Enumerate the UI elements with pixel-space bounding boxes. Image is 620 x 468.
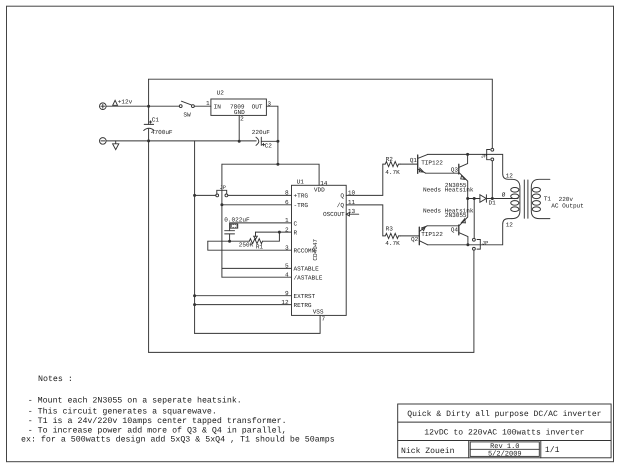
wire node line to R1 [208,240,250,242]
svg-text:4.7K: 4.7K [385,240,400,247]
ground flag [113,141,119,150]
svg-text:7: 7 [322,316,326,323]
jumper JP top right [487,148,494,161]
svg-text:+12v: +12v [118,99,133,106]
jumper JP left [216,190,228,197]
svg-text:Nick Zouein: Nick Zouein [401,447,455,456]
wire R2 to Q1 base [401,163,418,165]
switch SW [179,101,194,107]
svg-text:- T1 is a 24v/220v 10amps cent: - T1 is a 24v/220v 10amps center tapped … [28,416,287,426]
svg-text:RETRG: RETRG [294,302,312,309]
svg-text:Needs Heatsink: Needs Heatsink [423,187,474,194]
svg-text:Q4: Q4 [451,227,459,234]
wire top rail to right jumper [149,79,493,148]
svg-text:1/1: 1/1 [545,446,560,455]
transistor Q2 TIP122 [419,226,427,245]
svg-text:/ASTABLE: /ASTABLE [294,275,323,282]
wire Q pin10 to R2 [346,164,383,195]
svg-text:12: 12 [281,299,289,306]
svg-text:Q2: Q2 [411,236,419,243]
svg-text:220uF: 220uF [252,129,270,136]
svg-text:3: 3 [285,244,289,251]
svg-text:OUT: OUT [252,104,263,111]
svg-text:TIP122: TIP122 [421,231,443,238]
svg-text:2: 2 [285,226,289,233]
svg-text:5: 5 [285,263,289,270]
wire EXTRST pin 9 [195,295,292,297]
wire VDD branch horizontal [222,164,319,185]
svg-text:Quick & Dirty all purpose DC/A: Quick & Dirty all purpose DC/AC inverter [407,410,601,419]
+12v flag [113,100,118,105]
diode D1 [480,195,487,203]
svg-text:SW: SW [183,112,191,119]
wire pin3 RCCOMN [208,241,292,250]
svg-text:CD4047: CD4047 [312,239,319,261]
svg-text:JP: JP [482,241,488,247]
wire +12v from terminal to switch [106,105,179,107]
svg-text:JP: JP [220,185,226,191]
potentiometer R1 250K [249,232,262,244]
resistor R2 4.7K [383,162,401,167]
wire 0V to jumper pin [195,194,216,196]
svg-text:C2: C2 [265,142,273,149]
svg-text:6: 6 [285,199,289,206]
svg-text:JP: JP [481,153,487,159]
wire Q1 emitter to Q3 base [426,172,459,174]
wire emitter node row [468,198,480,200]
battery negative terminal [100,138,107,145]
svg-text:U2: U2 [217,90,225,97]
svg-text:C: C [294,220,298,227]
wire 0V drop to logic loop [194,141,196,334]
svg-text:+TRG: +TRG [294,193,309,200]
capacitor C3 [225,231,235,234]
svg-text:IN: IN [214,104,222,111]
wire bottom outer rail [149,250,474,352]
wire /Q pin11 to R3 [346,205,383,236]
svg-text:13: 13 [348,208,356,215]
wire logic bottom rail to VSS [195,315,321,333]
svg-text:2N3055: 2N3055 [445,212,467,219]
svg-text:12: 12 [506,172,514,179]
svg-text:Ø: Ø [502,192,506,199]
svg-text:Q3: Q3 [451,166,459,173]
wire R1 right to pin2 [263,232,280,241]
svg-text:12vDC to 220vAC 100watts inver: 12vDC to 220vAC 100watts inverter [424,428,584,437]
svg-text:2: 2 [240,115,244,122]
resistor R3 4.7K [383,233,401,238]
wire 0V rail from terminal to C2 [106,140,256,142]
svg-text:1: 1 [285,217,289,224]
notes block [21,375,335,444]
OSCOUT pin13 stub with marker [346,213,358,216]
svg-text:4: 4 [285,271,289,278]
wire ASTABLE pin 5 [222,267,292,269]
svg-text:AC Output: AC Output [551,203,584,210]
transformer T1 secondary outline [531,179,550,218]
svg-text:Q1: Q1 [410,157,418,164]
wire VSS pin7 stub part of loop above [0,0,1,1]
wire C3 bottom to node [229,234,231,241]
wire jumper to center tap node [491,161,493,199]
C3 label box [230,224,238,228]
svg-text:Notes :: Notes : [38,375,73,384]
svg-text:EXTRST: EXTRST [294,293,316,300]
wire U2 OUT to 9V node [266,106,278,164]
svg-text:R1: R1 [256,244,264,251]
svg-text:C1: C1 [152,116,160,123]
regulator U2 7809 body [211,99,267,115]
wire D1 cathode to center tap [486,198,518,200]
wire /ASTABLE pin 4 [222,276,292,278]
wire C2 to 9V node [261,140,278,142]
wire -TRG pin 6 [222,204,292,206]
wire collector bus bottom [428,219,512,245]
svg-text:- This circuit generates a squ: - This circuit generates a squarewave. [28,407,217,417]
wire emitter node down to jumper [473,199,475,239]
svg-text:VSS: VSS [313,308,324,315]
transformer core [524,180,528,218]
svg-text:4700uF: 4700uF [151,129,173,136]
svg-text:VDD: VDD [314,187,325,194]
transformer T1 primary outline [512,179,520,218]
wire collector bus top [428,154,512,179]
svg-text:- To increase power add more o: - To increase power add more of Q3 & Q4 … [28,425,287,435]
jumper JP bottom right [473,238,481,250]
svg-text:8: 8 [285,190,289,197]
svg-text:3: 3 [267,100,271,107]
title block [398,404,611,458]
wire pin2 R [256,231,292,233]
wire U2 GND pin 2 stub [238,115,240,141]
wire Q2 emitter to Q4 base [427,225,459,227]
wire pin1 C to C3 [230,223,292,231]
wire C1 bottom down left outer rail [148,129,150,352]
transformer T1 secondary loops [532,188,540,212]
IC U1 CD4047 body [292,185,347,315]
svg-text:250K: 250K [239,242,254,249]
svg-text:ex: for a 500watts design add: ex: for a 500watts design add 5xQ3 & 5xQ… [21,435,335,445]
wire switch to U2 IN [194,105,211,107]
junction dots [147,105,494,306]
transformer T1 primary loops [511,188,519,212]
svg-text:11: 11 [348,199,356,206]
wire C1 top / +12v tap vertical [148,79,150,124]
transistor Q4 2N3055 [459,199,468,245]
IC U1 pin14 VDD stub label area [0,0,1,1]
wire RETRG pin 12 [195,304,292,306]
wire VDD drop through jumper to pin4 [221,164,223,277]
wire jumper to +TRG pin 8 [228,194,292,196]
svg-text:OSCOUT: OSCOUT [323,211,345,218]
svg-text:R3: R3 [386,226,394,233]
svg-text:Q: Q [340,193,344,200]
capacitor C1 [144,121,154,131]
wire R3 to Q2 base [401,235,420,237]
svg-text:12: 12 [506,221,514,228]
capacitor C2 [256,137,265,146]
svg-text:R: R [294,229,298,236]
svg-text:9: 9 [285,290,289,297]
svg-text:TIP122: TIP122 [421,159,443,166]
svg-text:- Mount each 2N3055 on a seper: - Mount each 2N3055 on a seperate heatsi… [28,395,242,405]
svg-text:/Q: /Q [337,202,345,209]
svg-text:T1: T1 [544,195,552,202]
svg-text:R2: R2 [386,156,394,163]
svg-text:4.7K: 4.7K [385,169,400,176]
svg-text:5/2/2009: 5/2/2009 [488,450,522,459]
transistor Q3 2N3055 [459,154,468,198]
svg-text:U1: U1 [297,179,305,186]
svg-text:1: 1 [206,100,210,107]
battery positive terminal [100,103,107,110]
svg-text:10: 10 [348,190,356,197]
svg-text:ASTABLE: ASTABLE [294,266,320,273]
transistor Q1 TIP122 [418,154,428,173]
svg-text:D1: D1 [489,199,497,206]
svg-text:-TRG: -TRG [294,202,309,209]
